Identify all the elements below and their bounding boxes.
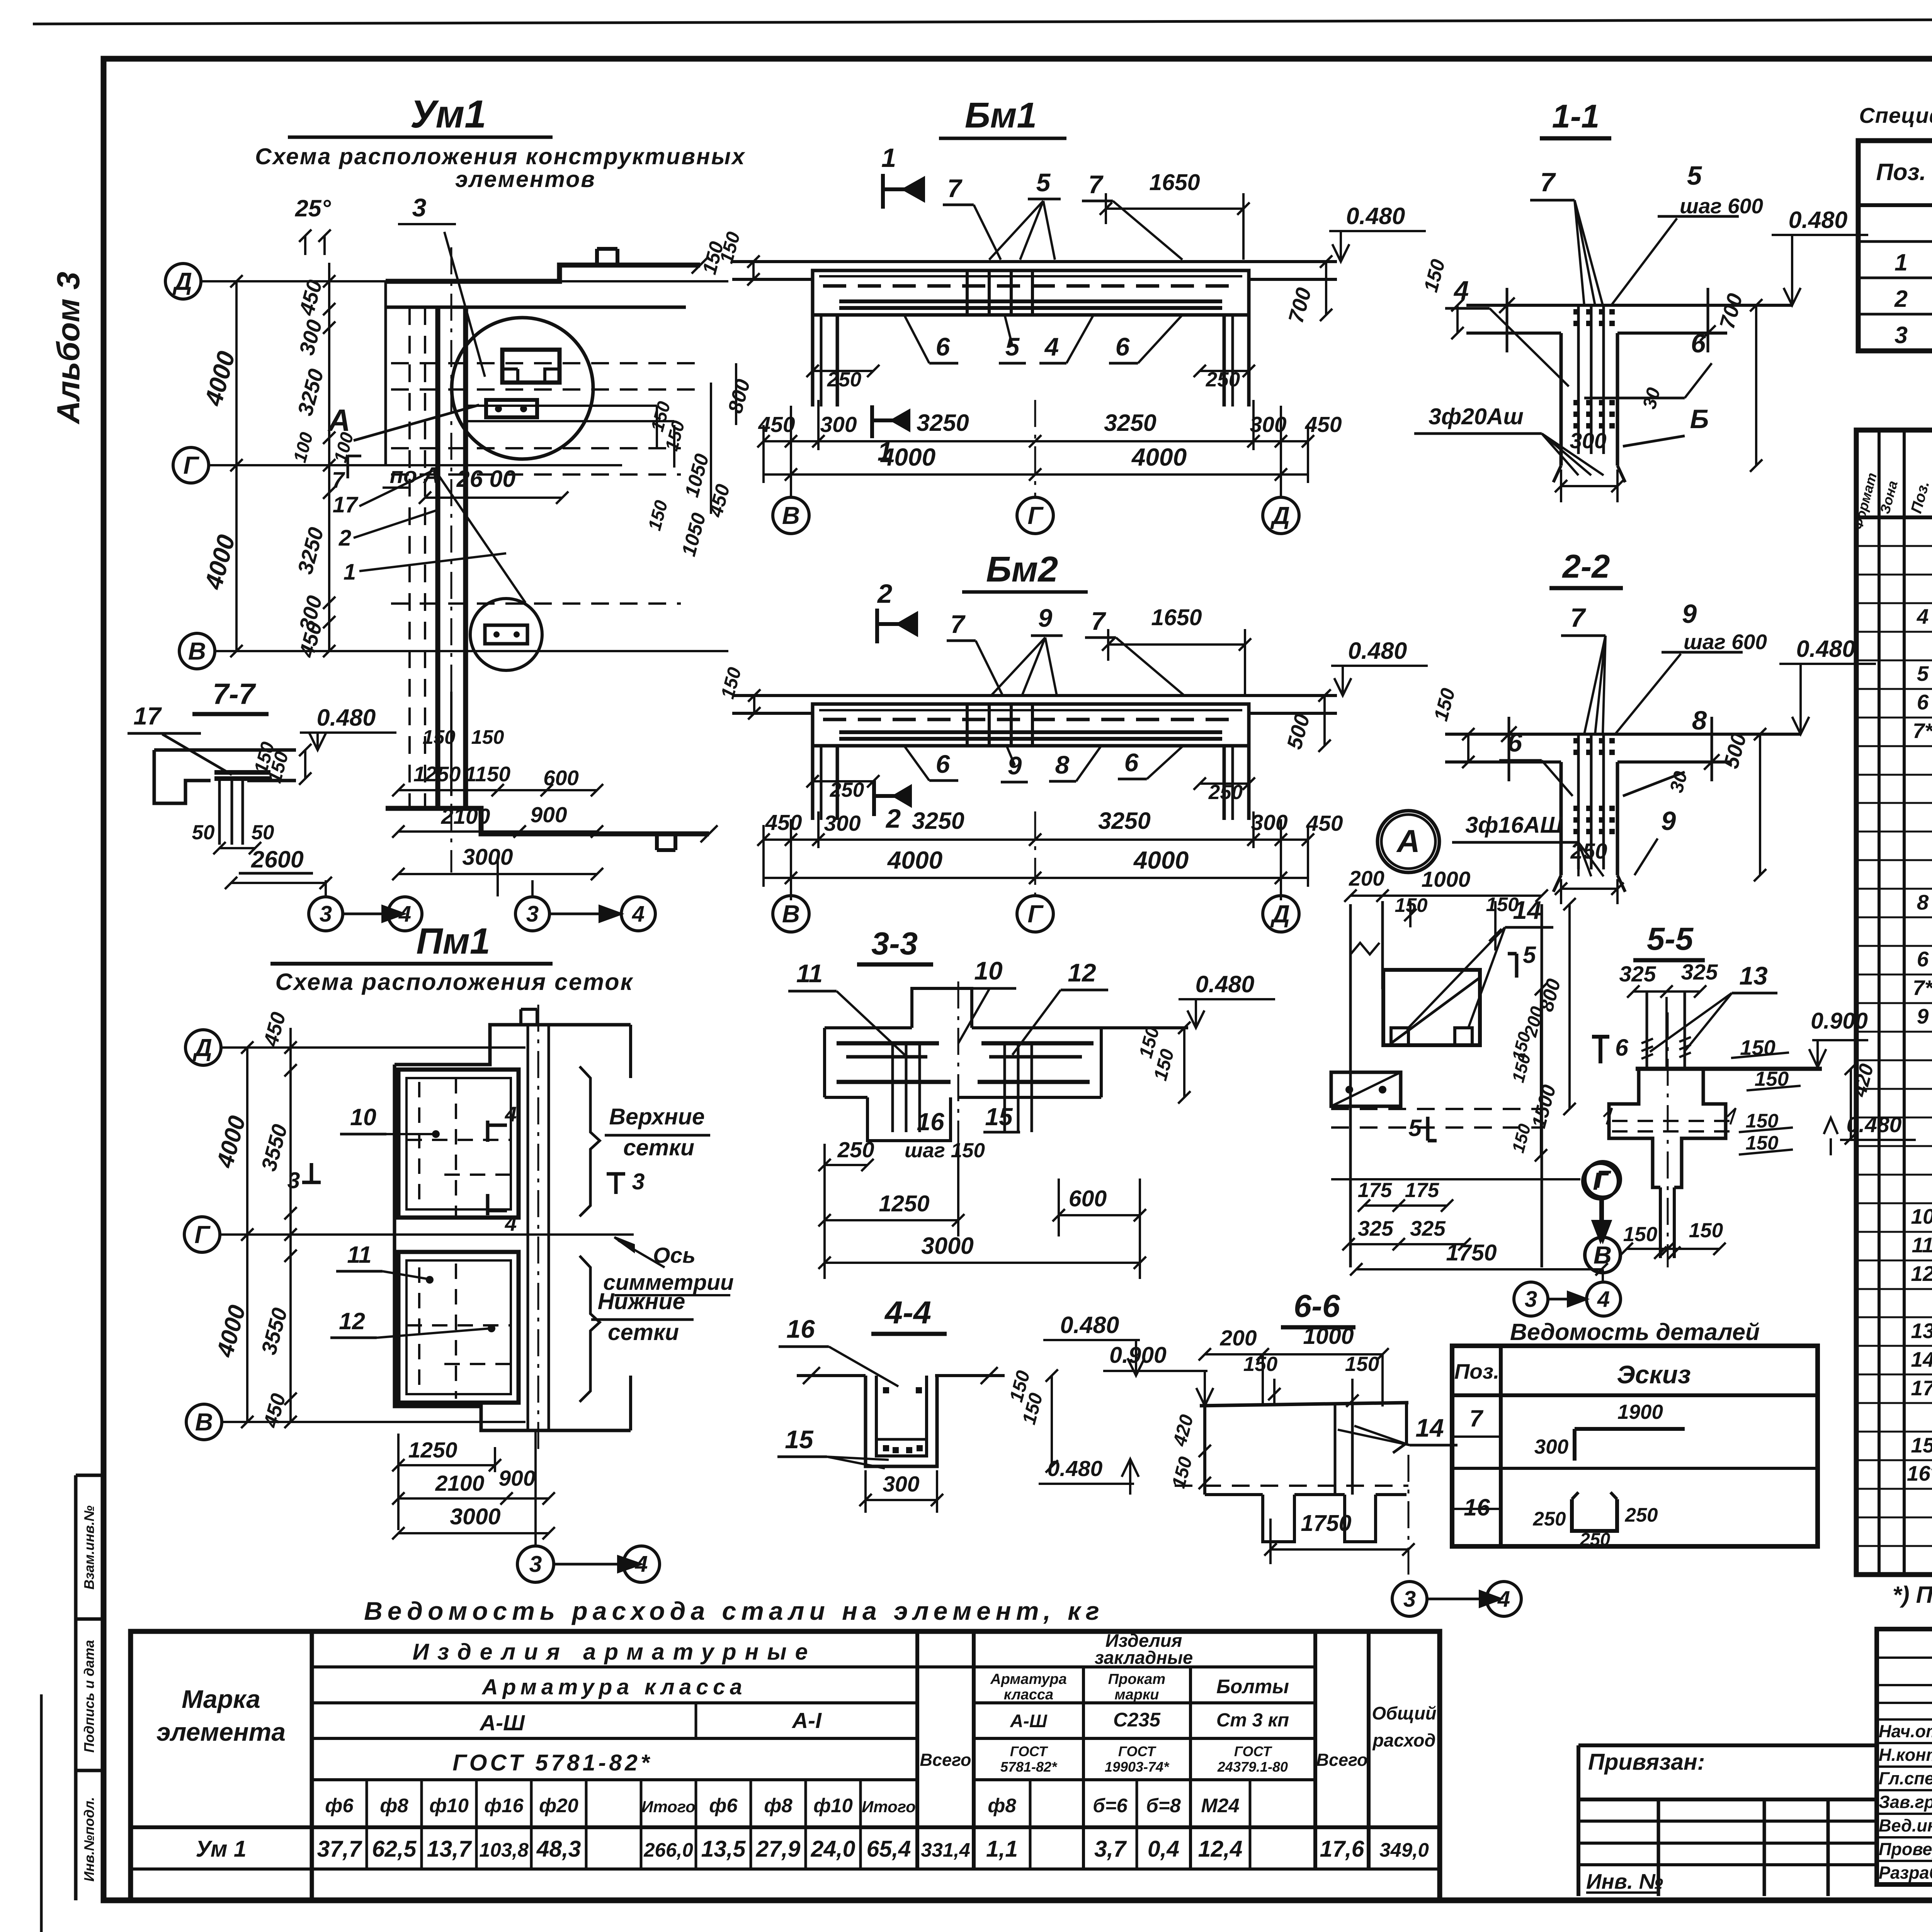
Bm2 stirrups: [966, 704, 969, 746]
svg-text:4: 4: [1044, 332, 1059, 361]
svg-text:349,0: 349,0: [1379, 1839, 1429, 1861]
svg-text:закладные: закладные: [1095, 1647, 1193, 1668]
svg-text:Ведомость расхода стали на: Ведомость расхода стали на элемент, кг: [364, 1597, 1104, 1625]
svg-text:0.480: 0.480: [1796, 636, 1855, 662]
svg-text:300: 300: [1534, 1435, 1568, 1458]
grid circles 3-4 right: [515, 897, 549, 931]
svg-text:3: 3: [287, 1168, 300, 1193]
svg-text:7: 7: [947, 174, 963, 202]
svg-text:6: 6: [1124, 748, 1139, 777]
wall plan Um1 top wall: [386, 265, 700, 281]
svg-text:5: 5: [1005, 332, 1020, 361]
svg-text:А: А: [1396, 823, 1420, 859]
6-6 right edge: [1405, 1403, 1408, 1443]
svg-text:ф10: ф10: [813, 1794, 853, 1816]
left attribute strip: [74, 1475, 78, 1900]
svg-text:0.480: 0.480: [1346, 203, 1405, 229]
svg-text:Арматура: Арматура: [990, 1671, 1067, 1687]
svg-text:3ф16АШ: 3ф16АШ: [1465, 812, 1563, 838]
svg-text:10: 10: [974, 956, 1003, 985]
svg-text:Итого: Итого: [641, 1798, 696, 1816]
svg-text:1: 1: [1895, 249, 1908, 276]
svg-text:ф6: ф6: [709, 1794, 738, 1816]
svg-text:С235: С235: [1113, 1709, 1161, 1731]
3-3 stirrups: [891, 1043, 894, 1132]
svg-text:50: 50: [252, 821, 274, 844]
svg-text:4000: 4000: [1131, 443, 1187, 471]
svg-text:ГОСТ 5781-82*: ГОСТ 5781-82*: [452, 1750, 653, 1776]
svg-text:Схема расположения сеток: Схема расположения сеток: [276, 969, 634, 995]
svg-text:Г: Г: [194, 1221, 211, 1248]
svg-text:62,5: 62,5: [372, 1836, 417, 1862]
svg-text:12,4: 12,4: [1198, 1836, 1243, 1862]
dim chain 450/300/3250 Um1 plan: [328, 263, 330, 651]
svg-text:Схема расположения конструктив: Схема расположения конструктивных: [255, 144, 746, 169]
Bm2 beam outline: [813, 704, 1249, 746]
title block signatures table: [1877, 1629, 1932, 1884]
svg-text:600: 600: [543, 766, 579, 790]
axis circle G Pm1: [184, 1217, 220, 1252]
svg-text:150: 150: [1345, 1353, 1379, 1376]
grid circles 3-4 left: [309, 897, 343, 931]
svg-text:3250: 3250: [917, 410, 969, 436]
svg-text:6: 6: [936, 750, 951, 778]
svg-text:16: 16: [917, 1108, 944, 1136]
svg-text:3000: 3000: [462, 844, 513, 870]
svg-text:103,8: 103,8: [479, 1839, 529, 1861]
axis line V: [215, 650, 728, 652]
svg-text:4000: 4000: [887, 846, 942, 874]
svg-text:б=6: б=6: [1093, 1794, 1128, 1816]
axis circle D: [165, 264, 201, 299]
1-1 slab ticks: [1506, 288, 1509, 352]
dim chain 4000/4000 Um1 plan: [235, 281, 238, 465]
svg-text:37,7: 37,7: [317, 1836, 363, 1862]
svg-text:4: 4: [1453, 276, 1469, 305]
svg-text:300: 300: [1251, 810, 1287, 835]
svg-text:16: 16: [1464, 1494, 1490, 1520]
svg-text:250: 250: [837, 1138, 874, 1162]
svg-text:Г: Г: [1027, 502, 1044, 529]
svg-text:26 00: 26 00: [456, 466, 516, 492]
svg-text:7: 7: [1469, 1405, 1484, 1432]
svg-text:Д: Д: [192, 1034, 212, 1061]
svg-text:Г: Г: [183, 451, 199, 479]
svg-text:17,6: 17,6: [1320, 1836, 1365, 1862]
axis circles B G D Bm1: [773, 497, 809, 534]
5-5 axes G V: [1583, 1163, 1618, 1199]
paper edge top line: [33, 19, 1932, 24]
4-4 channel: [866, 1376, 937, 1466]
detail A break squiggle: [1350, 943, 1379, 954]
7-7 step profile: [154, 748, 296, 752]
svg-text:4: 4: [398, 901, 411, 927]
svg-text:12: 12: [1068, 958, 1096, 987]
svg-text:шаг 600: шаг 600: [1684, 630, 1767, 654]
svg-text:300: 300: [1570, 429, 1606, 453]
svg-text:Ум 1: Ум 1: [196, 1836, 246, 1862]
svg-text:17: 17: [333, 492, 359, 517]
paper edge left line: [40, 1694, 43, 1932]
wall plan Um1 bottom wall: [386, 808, 709, 834]
svg-text:Поз.: Поз.: [1876, 159, 1926, 185]
svg-text:5: 5: [1036, 168, 1051, 197]
svg-text:А-Ш: А-Ш: [1010, 1711, 1048, 1731]
spec2 rows: [1856, 545, 1932, 547]
svg-text:А: А: [327, 403, 350, 437]
svg-text:7*: 7*: [1913, 976, 1932, 1000]
section mark 4 lower: [486, 1194, 490, 1215]
svg-text:Подпись и дата: Подпись и дата: [81, 1640, 97, 1753]
vedomost detaley table grid: [1452, 1346, 1818, 1546]
svg-text:Бм2: Бм2: [986, 549, 1058, 589]
svg-text:1250: 1250: [413, 762, 461, 786]
svg-text:15: 15: [1911, 1433, 1932, 1457]
svg-text:200: 200: [1219, 1326, 1257, 1350]
grid circles 3-4 under 6-6: [1392, 1582, 1427, 1616]
svg-text:элемента: элемента: [156, 1718, 286, 1746]
svg-text:3: 3: [529, 1551, 542, 1577]
svg-text:17: 17: [133, 702, 162, 730]
beam dashed lines above V: [391, 602, 681, 605]
svg-text:9: 9: [1917, 1004, 1929, 1028]
5-5 cross outline: [1609, 1069, 1660, 1187]
brace lower meshes: [580, 1256, 600, 1402]
svg-text:3: 3: [1525, 1287, 1537, 1312]
svg-text:Вед.инж.: Вед.инж.: [1879, 1816, 1932, 1835]
privyazan box: [1578, 1743, 1877, 1747]
Bm1 bottom reinforcement: [839, 299, 1222, 303]
svg-text:Ось: Ось: [653, 1243, 696, 1268]
section mark 2 top: [875, 609, 879, 643]
detail A axes G V: [1331, 1178, 1580, 1180]
center dashdot Pm1: [537, 1005, 539, 1453]
svg-text:0.900: 0.900: [1811, 1008, 1868, 1034]
svg-text:Итого: Итого: [862, 1798, 916, 1816]
Bm1 top reinforcement: [823, 284, 1238, 288]
svg-text:6-6: 6-6: [1294, 1288, 1340, 1324]
steel table grid: [131, 1631, 1440, 1900]
svg-text:13: 13: [1739, 961, 1767, 990]
svg-text:0.900: 0.900: [1109, 1342, 1167, 1368]
svg-text:4000: 4000: [1133, 846, 1189, 874]
svg-text:Альбом 3: Альбом 3: [50, 272, 86, 425]
3-3 mesh bars top: [837, 1041, 939, 1046]
svg-text:5-5: 5-5: [1647, 921, 1694, 957]
svg-text:0.480: 0.480: [1060, 1312, 1119, 1338]
svg-text:175: 175: [1358, 1179, 1393, 1202]
svg-text:класса: класса: [1004, 1687, 1053, 1703]
svg-text:250: 250: [1624, 1504, 1658, 1526]
axis circle G: [173, 447, 209, 483]
svg-text:Б: Б: [1690, 404, 1709, 434]
svg-text:В: В: [195, 1408, 213, 1436]
Bm1 stirrups: [966, 270, 969, 315]
svg-text:5: 5: [1523, 942, 1536, 968]
vertical centerline 3-3: [957, 981, 959, 1182]
svg-text:1250: 1250: [408, 1438, 457, 1463]
svg-text:900: 900: [530, 803, 567, 827]
1-1 slab: [1466, 304, 1793, 307]
svg-text:9: 9: [1661, 806, 1676, 836]
dim chain 4000/4000 Pm1: [246, 1048, 248, 1422]
svg-text:3: 3: [1895, 322, 1908, 348]
svg-text:12: 12: [339, 1308, 365, 1334]
svg-text:16: 16: [786, 1315, 815, 1343]
svg-text:В: В: [1594, 1241, 1611, 1269]
svg-text:Гл.спец.: Гл.спец.: [1879, 1769, 1932, 1788]
svg-text:8: 8: [1055, 750, 1070, 779]
svg-text:48,3: 48,3: [536, 1836, 581, 1862]
svg-text:7-7: 7-7: [213, 678, 257, 711]
svg-text:175: 175: [1405, 1179, 1440, 1202]
axis circle V: [179, 633, 215, 669]
detail A lower plate: [1331, 1072, 1401, 1106]
svg-text:ф10: ф10: [429, 1794, 469, 1816]
svg-text:Всего: Всего: [1316, 1750, 1368, 1770]
svg-text:4: 4: [1917, 604, 1929, 628]
svg-text:шаг 150: шаг 150: [905, 1139, 985, 1162]
svg-text:14: 14: [1415, 1413, 1444, 1442]
svg-text:А-I: А-I: [791, 1708, 822, 1733]
section mark T6: [1599, 1037, 1602, 1063]
svg-text:2100: 2100: [435, 1471, 485, 1496]
Bm1 slab lines: [732, 260, 1337, 263]
svg-text:7: 7: [1570, 603, 1587, 633]
svg-text:4000: 4000: [880, 443, 935, 471]
svg-text:6: 6: [936, 332, 951, 361]
svg-text:1,1: 1,1: [986, 1836, 1018, 1862]
svg-text:300: 300: [883, 1472, 919, 1497]
svg-text:16*: 16*: [1907, 1461, 1932, 1485]
detail A circle label: [1378, 811, 1439, 872]
detail A section marks 5: [1515, 954, 1519, 978]
6-6 top slab: [1200, 1403, 1408, 1406]
svg-text:300: 300: [824, 811, 861, 836]
svg-text:2: 2: [885, 804, 901, 833]
section mark T3 right: [607, 1172, 625, 1176]
svg-text:3250: 3250: [912, 808, 964, 834]
svg-text:8: 8: [1692, 706, 1707, 735]
svg-text:Арматура класса: Арматура класса: [481, 1675, 747, 1699]
svg-text:7: 7: [1088, 170, 1104, 199]
3-3 mesh bars bottom: [837, 1080, 951, 1084]
svg-text:ф8: ф8: [380, 1794, 408, 1816]
svg-text:250: 250: [1532, 1508, 1566, 1530]
Bm2 top reinforcement: [823, 718, 1238, 721]
svg-text:Г: Г: [1027, 900, 1044, 928]
svg-text:ф20: ф20: [539, 1794, 578, 1816]
svg-text:14: 14: [1513, 896, 1541, 924]
svg-text:4: 4: [1497, 1587, 1510, 1612]
svg-text:Взам.инв.№: Взам.инв.№: [81, 1505, 97, 1590]
svg-text:12: 12: [1911, 1262, 1932, 1286]
svg-text:Общий: Общий: [1372, 1703, 1436, 1723]
svg-text:Поз.: Поз.: [1454, 1359, 1500, 1383]
svg-text:11: 11: [347, 1242, 371, 1268]
svg-text:3-3: 3-3: [871, 925, 918, 961]
svg-text:600: 600: [1069, 1186, 1107, 1211]
brace upper meshes: [580, 1066, 600, 1216]
svg-text:1000: 1000: [1303, 1323, 1354, 1349]
axis circle D Pm1: [185, 1030, 221, 1065]
svg-text:1650: 1650: [1151, 605, 1202, 630]
svg-text:0.480: 0.480: [1348, 638, 1407, 664]
svg-text:3: 3: [526, 901, 539, 927]
svg-text:2100: 2100: [441, 804, 490, 829]
svg-text:1650: 1650: [1149, 170, 1200, 195]
detail A embed box: [1383, 970, 1480, 1045]
svg-text:Д: Д: [1270, 900, 1290, 928]
svg-text:50: 50: [192, 821, 215, 844]
svg-text:4: 4: [635, 1551, 648, 1577]
svg-text:3: 3: [1403, 1587, 1416, 1612]
svg-text:331,4: 331,4: [921, 1839, 970, 1861]
section mark 1 bottom: [870, 405, 874, 438]
svg-text:4: 4: [632, 901, 645, 927]
svg-text:Инв. №: Инв. №: [1586, 1869, 1663, 1893]
5-5 top wall face: [1636, 1067, 1822, 1071]
svg-text:19903-74*: 19903-74*: [1105, 1759, 1170, 1775]
svg-text:25°: 25°: [295, 195, 331, 221]
svg-text:М24: М24: [1201, 1794, 1239, 1816]
svg-text:1750: 1750: [1446, 1240, 1497, 1265]
svg-text:10: 10: [350, 1104, 376, 1130]
svg-text:ГОСТ: ГОСТ: [1118, 1743, 1156, 1759]
svg-text:7: 7: [1540, 167, 1556, 197]
svg-text:*) Позиции 7; 16 см. ведомость: *) Позиции 7; 16 см. ведомость деталей.: [1893, 1582, 1932, 1608]
svg-text:Марка: Марка: [182, 1685, 260, 1713]
svg-text:б=8: б=8: [1146, 1794, 1181, 1816]
svg-text:2: 2: [338, 526, 351, 551]
svg-text:6: 6: [1615, 1034, 1629, 1061]
svg-text:17: 17: [1911, 1376, 1932, 1400]
svg-text:3250: 3250: [1104, 410, 1156, 436]
svg-text:9: 9: [1038, 604, 1053, 632]
svg-text:7: 7: [332, 468, 345, 493]
svg-text:0,4: 0,4: [1148, 1836, 1179, 1862]
svg-text:5: 5: [1687, 161, 1702, 190]
svg-text:300: 300: [820, 412, 857, 437]
3-3 slab body: [825, 1026, 912, 1029]
embed plate in circle: [486, 400, 537, 417]
svg-text:150: 150: [471, 726, 504, 748]
svg-text:1150: 1150: [465, 762, 511, 786]
svg-text:250: 250: [1580, 1529, 1610, 1549]
svg-text:ф6: ф6: [325, 1794, 354, 1816]
svg-text:150: 150: [1623, 1223, 1657, 1246]
detail A plan outline: [1349, 904, 1352, 1267]
extension lines Bm2 dims: [790, 819, 792, 900]
svg-text:1: 1: [881, 143, 896, 173]
axis line D: [201, 280, 728, 282]
svg-text:2600: 2600: [251, 846, 304, 872]
svg-text:3,7: 3,7: [1094, 1836, 1127, 1862]
svg-text:сетки: сетки: [608, 1320, 679, 1345]
svg-text:5781-82*: 5781-82*: [1000, 1759, 1058, 1775]
2-2 column bars: [1577, 734, 1580, 869]
svg-text:Г: Г: [1593, 1167, 1609, 1195]
axis circles B G D Bm2: [773, 896, 809, 932]
svg-text:325: 325: [1681, 960, 1718, 985]
svg-text:2: 2: [1894, 286, 1908, 312]
svg-text:2: 2: [877, 579, 892, 609]
svg-text:В: В: [782, 900, 800, 928]
svg-text:150: 150: [1689, 1219, 1723, 1242]
svg-text:6: 6: [1507, 728, 1522, 757]
6-6 dashed level: [1175, 1485, 1408, 1487]
svg-text:ф16: ф16: [484, 1794, 524, 1816]
svg-text:марки: марки: [1115, 1687, 1159, 1703]
svg-text:9: 9: [1682, 599, 1697, 629]
svg-text:11: 11: [1912, 1233, 1932, 1257]
svg-text:250: 250: [1570, 839, 1607, 864]
svg-text:15: 15: [785, 1425, 814, 1454]
Pm1 slab outline: [395, 1025, 631, 1065]
svg-text:6: 6: [1691, 328, 1706, 358]
svg-text:4-4: 4-4: [884, 1294, 931, 1330]
svg-text:Пм1: Пм1: [416, 921, 490, 962]
svg-text:1: 1: [344, 560, 356, 585]
4-4 top slab lines: [797, 1374, 866, 1377]
svg-text:5: 5: [1917, 662, 1929, 685]
right vertical lines Pm1: [527, 1025, 529, 1430]
svg-text:ГОСТ: ГОСТ: [1234, 1743, 1272, 1759]
6-6 teeth: [1263, 1495, 1294, 1542]
svg-text:4: 4: [1597, 1287, 1610, 1312]
svg-text:266,0: 266,0: [643, 1839, 693, 1861]
svg-text:1250: 1250: [879, 1191, 929, 1216]
axis line G: [209, 464, 622, 466]
spec table 1 grid: [1858, 141, 1932, 351]
vertical refs from dims: [325, 880, 327, 896]
svg-text:ф8: ф8: [764, 1794, 793, 1816]
spec table 2 grid: [1856, 430, 1932, 1575]
svg-text:24379.1-80: 24379.1-80: [1217, 1759, 1288, 1775]
svg-text:27,9: 27,9: [756, 1836, 801, 1862]
svg-text:1900: 1900: [1617, 1401, 1663, 1423]
svg-text:24,0: 24,0: [811, 1836, 855, 1862]
svg-text:Верхние: Верхние: [609, 1104, 704, 1129]
6-6 inner wall: [1334, 1404, 1337, 1495]
svg-text:1750: 1750: [1301, 1510, 1351, 1536]
svg-text:Д: Д: [172, 267, 192, 295]
svg-text:14: 14: [1911, 1347, 1932, 1371]
svg-text:6: 6: [1116, 332, 1130, 361]
svg-text:4: 4: [505, 1102, 517, 1126]
svg-text:3: 3: [320, 901, 332, 927]
svg-text:3250: 3250: [1098, 808, 1151, 834]
svg-text:450: 450: [1304, 412, 1342, 437]
svg-text:3: 3: [632, 1169, 645, 1194]
svg-text:элементов: элементов: [455, 167, 596, 192]
svg-text:5: 5: [1408, 1115, 1422, 1141]
beam dashed lines at G: [391, 447, 681, 449]
Bm1 beam outline: [813, 270, 1249, 315]
svg-text:ф8: ф8: [988, 1794, 1016, 1816]
5-5 dashed interior: [1612, 1120, 1730, 1122]
5-5 break marks: [1604, 1108, 1612, 1124]
wall plan Um1 vertical wall: [435, 307, 440, 808]
4-4 bars: [883, 1387, 889, 1393]
svg-text:по А: по А: [390, 463, 440, 488]
svg-text:450: 450: [765, 810, 802, 835]
svg-text:3ф20Аш: 3ф20Аш: [1429, 404, 1524, 429]
2-2 slab ticks: [1508, 717, 1510, 781]
svg-text:Эскиз: Эскиз: [1617, 1360, 1691, 1389]
svg-text:3000: 3000: [921, 1233, 974, 1259]
wall dashed inner lines: [408, 307, 411, 808]
